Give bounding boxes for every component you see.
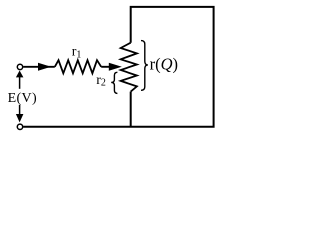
- svg-text:E(V): E(V): [8, 91, 37, 106]
- svg-text:r(Q): r(Q): [150, 54, 178, 73]
